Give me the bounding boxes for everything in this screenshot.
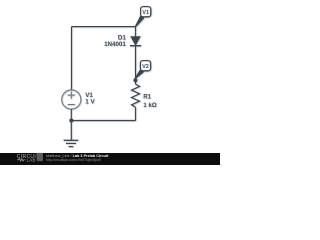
junction node at V2 probe: [133, 78, 137, 82]
CircuitLab logo badge: [37, 153, 43, 161]
junction node at V1 minus / ground: [69, 119, 73, 123]
wire bottom rail: [71, 120, 135, 122]
wire resistor bottom to corner: [135, 107, 137, 120]
probe flag V1 box: [141, 7, 151, 17]
wire right branch top (corner to diode anode): [135, 27, 137, 37]
footer bar: [0, 153, 220, 165]
probe flag V2 box: [140, 61, 150, 71]
probe flag V2 tail: [135, 70, 143, 78]
svg-text:http://circuitlab.com/c/hx57uj: http://circuitlab.com/c/hx57ujkm5pa9: [46, 158, 101, 162]
probe flag V1 tail: [136, 17, 144, 27]
diode D1: [130, 37, 141, 46]
voltage source V1: [62, 90, 81, 109]
wire diode cathode to node V2: [135, 46, 137, 84]
wire left branch lower: [70, 109, 72, 140]
CircuitLab logo resistor squiggle: [17, 159, 25, 162]
ground: [64, 140, 79, 146]
svg-text:LAB: LAB: [27, 157, 36, 162]
wire left branch upper: [71, 27, 73, 90]
wire top rail: [72, 26, 136, 28]
resistor R1 zigzag: [132, 84, 140, 107]
